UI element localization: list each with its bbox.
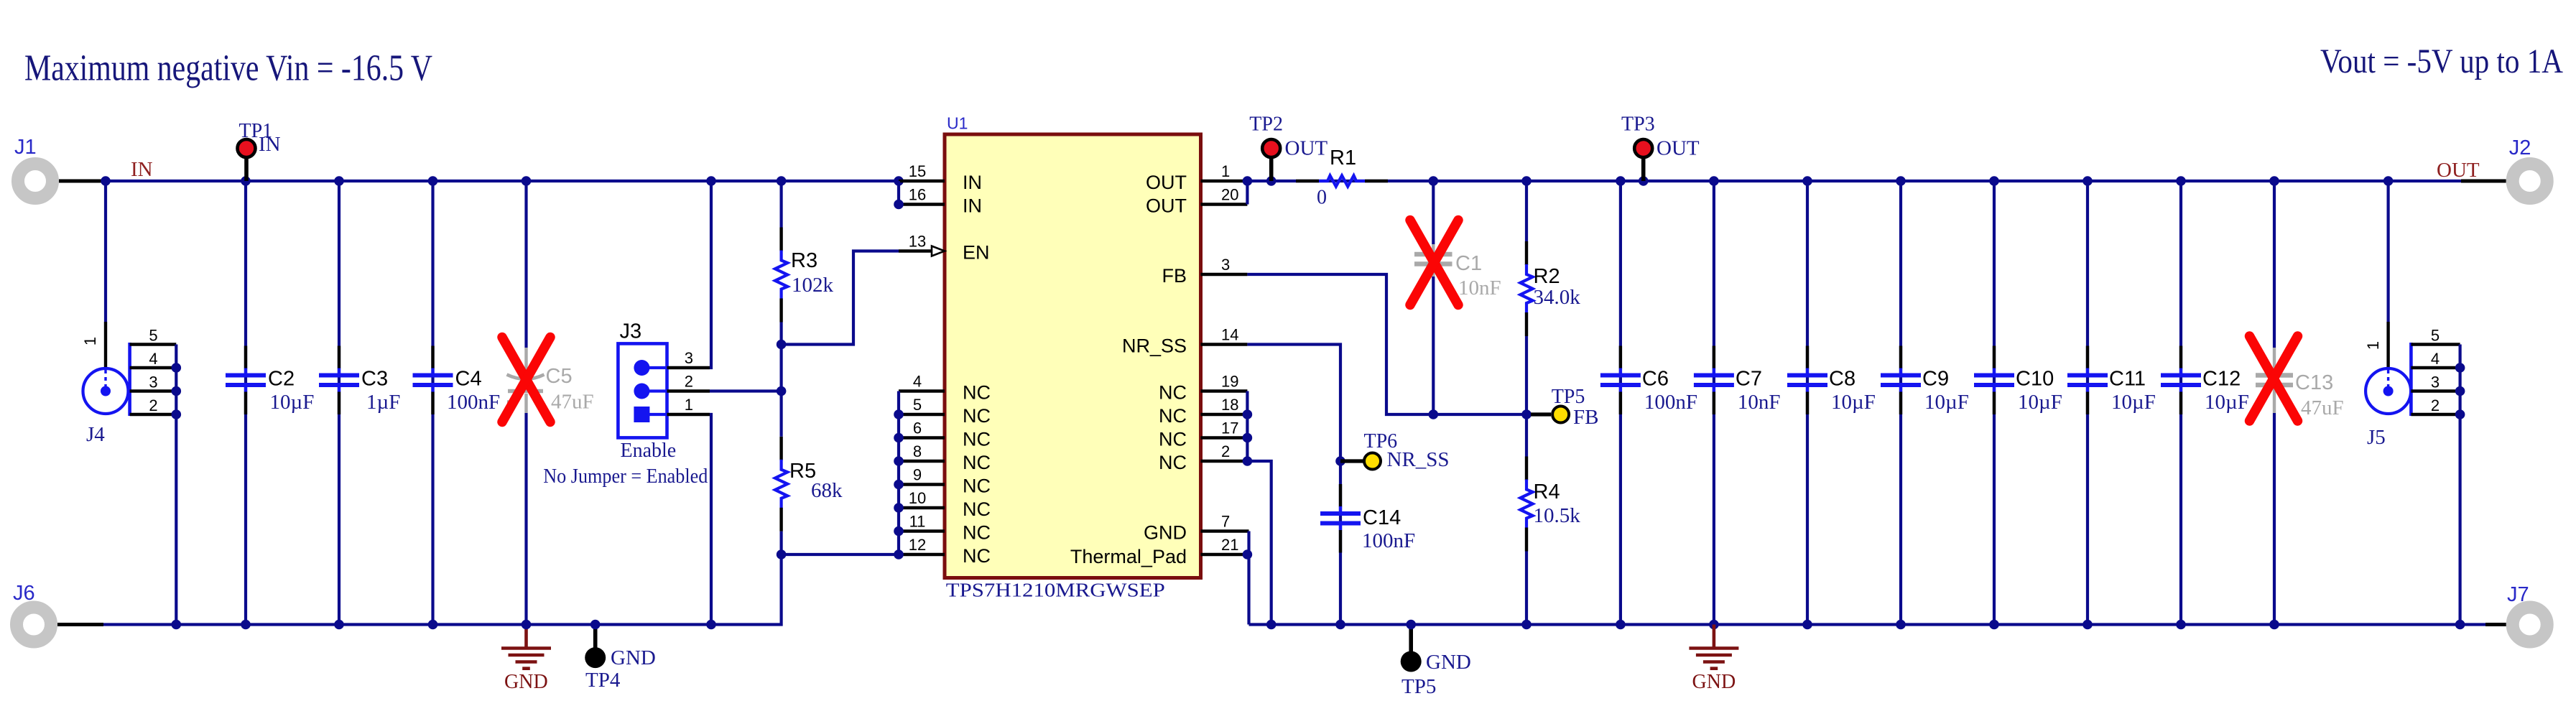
svg-text:C12: C12 [2202, 368, 2241, 391]
pin U1-12 NC [899, 553, 945, 556]
svg-text:102k: 102k [792, 274, 834, 297]
capacitor C13 (not fitted) [2273, 348, 2276, 373]
capacitor C9 [1899, 346, 1902, 369]
pin U1-13 EN [899, 249, 932, 252]
svg-text:10µF: 10µF [2111, 391, 2156, 414]
junction C5/GND [522, 620, 532, 630]
wire C13 column [2273, 181, 2276, 348]
junction cap top [2176, 176, 2186, 186]
pin U1-21 Thermal_Pad [1201, 553, 1248, 556]
svg-text:TP5: TP5 [1401, 675, 1436, 698]
wire pin2 to GND [1247, 461, 1271, 625]
wire GND pin to bus [1247, 531, 1250, 625]
svg-text:U1: U1 [947, 114, 968, 133]
svg-text:4: 4 [149, 350, 157, 368]
wire R3 bottom [779, 322, 782, 345]
pin U1-14 NR_SS [1201, 343, 1248, 345]
svg-text:C2: C2 [268, 368, 295, 391]
svg-text:20: 20 [1221, 186, 1238, 204]
junction cap top [2082, 176, 2093, 186]
wire NR_SS [1247, 345, 1340, 625]
svg-text:TP4: TP4 [585, 669, 621, 692]
svg-text:C6: C6 [1642, 368, 1669, 391]
svg-text:5: 5 [2431, 327, 2440, 345]
svg-text:10µF: 10µF [1924, 391, 1969, 414]
svg-text:J2: J2 [2509, 136, 2531, 159]
svg-text:19: 19 [1221, 373, 1238, 391]
testpoint TP5 GND [1409, 625, 1413, 653]
svg-text:C9: C9 [1922, 368, 1949, 391]
junction C3 [334, 176, 344, 186]
ground GND right [1713, 625, 1716, 649]
capacitor C2 [244, 346, 247, 369]
svg-text:Thermal_Pad: Thermal_Pad [1070, 546, 1187, 567]
resistor R1 [1296, 180, 1319, 182]
junction U1 pin15 [894, 176, 904, 186]
svg-text:IN: IN [963, 195, 982, 217]
svg-text:IN: IN [131, 158, 153, 181]
junction TP1/C2 [241, 176, 251, 186]
junction cap bottom [1802, 620, 1812, 630]
capacitor C14 [1339, 484, 1342, 507]
pin U1-6 NC [899, 436, 945, 439]
svg-text:100nF: 100nF [447, 391, 500, 414]
junction C1 bottom [1429, 409, 1439, 419]
wire C5 column [524, 181, 527, 348]
junction TP6 [1335, 456, 1345, 466]
wire R2 bottom [1525, 336, 1528, 414]
capacitor C6 [1619, 346, 1622, 369]
svg-text:8: 8 [913, 442, 922, 460]
svg-text:IN: IN [963, 172, 982, 193]
op-amp U1 body [945, 134, 1201, 578]
svg-text:12: 12 [909, 536, 926, 554]
junction TP3 [1639, 176, 1649, 186]
junction R3/R5/EN [777, 340, 787, 350]
wire J2 stub [2461, 180, 2506, 183]
svg-text:C11: C11 [2109, 368, 2146, 391]
svg-text:NC: NC [963, 498, 991, 520]
svg-text:R4: R4 [1534, 481, 1560, 503]
svg-text:3: 3 [2431, 373, 2440, 391]
junction J3 pin3 [706, 176, 716, 186]
testpoint TP2 [1269, 159, 1274, 181]
svg-text:J7: J7 [2507, 583, 2529, 606]
wire C12 column [2179, 181, 2182, 625]
wire J6 stub [57, 623, 103, 626]
junction cap bottom [2082, 620, 2093, 630]
junction TP2 [1266, 176, 1277, 186]
svg-text:NC: NC [963, 382, 991, 404]
junction cap bottom [1989, 620, 1999, 630]
svg-text:NC: NC [963, 522, 991, 544]
svg-text:C10: C10 [2016, 368, 2054, 391]
wire C6 column [1619, 181, 1622, 625]
capacitor C7 [1713, 346, 1715, 369]
svg-text:6: 6 [913, 419, 922, 437]
pin U1-4 NC [899, 389, 945, 392]
junction cap top [1802, 176, 1812, 186]
junction C4 [428, 176, 438, 186]
wire J5 shield to GND [2459, 345, 2462, 625]
svg-text:NC: NC [963, 429, 991, 450]
svg-text:10µF: 10µF [1831, 391, 1876, 414]
connector J6 [17, 608, 51, 642]
svg-text:47uF: 47uF [2301, 396, 2344, 419]
svg-text:18: 18 [1221, 396, 1238, 414]
junction J1/J4 [101, 176, 111, 186]
svg-text:2: 2 [1221, 442, 1230, 460]
pin U1-17 NC [1201, 436, 1248, 439]
testpoint TP3 [1641, 159, 1646, 181]
svg-text:4: 4 [913, 373, 922, 391]
svg-text:3: 3 [1221, 256, 1230, 274]
svg-text:J5: J5 [2367, 426, 2386, 449]
pin J3-1 [667, 413, 710, 416]
pin U1-20 OUT [1201, 203, 1248, 205]
junction TP4 [590, 620, 601, 630]
wire C1 column [1432, 181, 1435, 244]
no-fit cross C1 [1410, 220, 1458, 305]
junction pin1 [1243, 176, 1253, 186]
svg-text:1: 1 [685, 396, 693, 414]
junction C5 [522, 176, 532, 186]
capacitor C11 [2086, 346, 2089, 369]
junction C14 bottom [1335, 620, 1345, 630]
wire C3 column [338, 181, 340, 625]
wire IN bus [106, 180, 899, 182]
svg-text:FB: FB [1162, 265, 1187, 287]
junction C1 top [1429, 176, 1439, 186]
capacitor C4 [431, 346, 434, 369]
svg-text:11: 11 [909, 513, 926, 531]
svg-text:1: 1 [2364, 341, 2382, 350]
pin U1-2 NC [1201, 460, 1248, 463]
junction C6 bottom [1616, 620, 1626, 630]
svg-text:R3: R3 [791, 249, 817, 272]
svg-text:7: 7 [1221, 513, 1230, 531]
svg-text:10: 10 [909, 489, 926, 507]
pin J3-2 [667, 389, 710, 392]
connector J5 body [2366, 368, 2411, 414]
junction cap bottom [2269, 620, 2279, 630]
wire R5 top [779, 345, 782, 437]
svg-text:J1: J1 [14, 136, 37, 159]
connector J2 [2513, 164, 2547, 198]
connector J5 shield box [2409, 343, 2413, 416]
capacitor C12 [2179, 346, 2182, 369]
svg-text:15: 15 [909, 162, 926, 180]
svg-text:5: 5 [913, 396, 922, 414]
wire C9 column [1899, 181, 1902, 625]
connector J3 body [618, 343, 667, 437]
junction cap top [2269, 176, 2279, 186]
svg-text:21: 21 [1221, 536, 1238, 554]
svg-text:C8: C8 [1829, 368, 1855, 391]
svg-text:OUT: OUT [1146, 195, 1187, 217]
svg-text:NC: NC [1159, 405, 1187, 427]
ground GND left [524, 625, 528, 649]
wire C8 column [1806, 181, 1809, 625]
testpoint TP6 NR_SS [1340, 459, 1363, 463]
svg-text:OUT: OUT [2437, 159, 2480, 182]
svg-text:J6: J6 [13, 582, 35, 605]
wire C4 column [431, 181, 434, 625]
svg-text:NR_SS: NR_SS [1122, 335, 1187, 357]
pin U1-19 NC [1201, 389, 1248, 392]
wire J3-3 to IN [710, 181, 711, 368]
wire R4 bottom [1525, 552, 1528, 625]
junction cap top [1896, 176, 1906, 186]
wire NC chain left [897, 391, 900, 555]
svg-text:1: 1 [81, 337, 99, 345]
wire EN [782, 251, 899, 345]
wire C7 column [1713, 181, 1715, 625]
capacitor C10 [1993, 346, 1996, 369]
svg-text:5: 5 [149, 327, 157, 345]
svg-text:C5: C5 [546, 365, 573, 388]
svg-text:GND: GND [1692, 671, 1736, 693]
svg-text:GND: GND [1426, 651, 1471, 674]
svg-text:NR_SS: NR_SS [1387, 448, 1450, 471]
resistor R4 [1525, 457, 1528, 481]
svg-text:1: 1 [1221, 162, 1230, 180]
wire C10 column [1993, 181, 1996, 625]
pin U1-18 NC [1201, 413, 1248, 416]
pin U1-3 FB [1201, 273, 1248, 276]
pin U1-7 GND [1201, 529, 1249, 532]
wire GND bus right [1249, 623, 2486, 626]
svg-text:IN: IN [259, 133, 281, 156]
wire C2 column [244, 181, 247, 625]
testpoint TP5 FB [1531, 412, 1551, 416]
connector J7 [2513, 608, 2547, 642]
wire J3-1 to GND [710, 414, 711, 625]
no-fit cross C13 [2250, 336, 2298, 421]
wire GND bus left [103, 554, 782, 625]
wire R3 top [779, 181, 782, 228]
pin U1-9 NC [899, 483, 945, 486]
pin U1-1 OUT [1201, 180, 1248, 182]
wire J3-2 to EN divider [710, 389, 782, 392]
svg-text:10µF: 10µF [2018, 391, 2062, 414]
svg-text:TP2: TP2 [1249, 113, 1283, 136]
wire pin15-16 link [897, 181, 900, 205]
pin J3-3 [667, 366, 710, 369]
svg-text:GND: GND [611, 646, 656, 669]
svg-text:NC: NC [1159, 382, 1187, 404]
junction C2 bottom [241, 620, 251, 630]
svg-text:C7: C7 [1736, 368, 1762, 391]
svg-text:C4: C4 [455, 368, 482, 391]
pin U1-15 IN [899, 180, 945, 182]
wire FB [1247, 274, 1531, 414]
pin U1-5 NC [899, 413, 945, 416]
capacitor C3 [338, 346, 340, 369]
svg-text:10.5k: 10.5k [1534, 504, 1581, 527]
svg-text:1µF: 1µF [366, 391, 400, 414]
junction R5 bottom [777, 549, 787, 560]
svg-text:2: 2 [685, 373, 693, 391]
junction cap top [1989, 176, 1999, 186]
wire C11 column [2086, 181, 2089, 625]
junction C6 top [1616, 176, 1626, 186]
svg-text:34.0k: 34.0k [1534, 286, 1581, 309]
svg-text:No Jumper = Enabled: No Jumper = Enabled [543, 465, 708, 488]
junction R2/R4/FB [1521, 409, 1532, 419]
svg-text:NC: NC [963, 452, 991, 473]
pin U1-11 NC [899, 529, 945, 532]
svg-text:10nF: 10nF [1458, 277, 1501, 300]
junction C4 bottom [428, 620, 438, 630]
svg-text:14: 14 [1221, 326, 1238, 344]
wire J5 pin1 [2387, 181, 2390, 322]
svg-text:EN: EN [963, 242, 990, 264]
wire J4 pin1 [104, 181, 107, 322]
svg-text:OUT: OUT [1285, 137, 1328, 160]
wire pin1-20 link [1246, 181, 1248, 205]
svg-text:GND: GND [504, 671, 548, 693]
svg-text:OUT: OUT [1657, 137, 1700, 160]
resistor R5 [779, 437, 782, 460]
junction GND symbol right [1709, 620, 1719, 630]
svg-text:47uF: 47uF [551, 391, 594, 414]
svg-text:C14: C14 [1363, 506, 1401, 529]
wire J7 stub [2485, 623, 2506, 626]
wire J4 shield to GND [175, 345, 177, 625]
svg-text:R1: R1 [1330, 147, 1356, 170]
svg-text:13: 13 [909, 233, 926, 251]
connector J4 body [83, 368, 129, 414]
resistor R3 [779, 228, 782, 251]
junction cap bottom [1896, 620, 1906, 630]
svg-text:NC: NC [1159, 452, 1187, 473]
wire NC chain right [1246, 391, 1248, 462]
svg-text:17: 17 [1221, 419, 1238, 437]
testpoint TP4 [593, 625, 598, 649]
capacitor C5 (not fitted) [524, 348, 527, 389]
pin U1-16 IN [899, 203, 945, 205]
svg-text:C1: C1 [1455, 252, 1482, 275]
svg-text:10µF: 10µF [2205, 391, 2249, 414]
svg-text:9: 9 [913, 466, 922, 484]
connector J1 [18, 164, 52, 198]
pin U1-10 NC [899, 506, 945, 509]
junction cap top [1709, 176, 1719, 186]
connector J4 shield box [128, 343, 131, 416]
svg-text:NC: NC [963, 545, 991, 567]
svg-text:GND: GND [1144, 522, 1187, 544]
svg-text:100nF: 100nF [1644, 391, 1697, 414]
junction J5 pin1 [2383, 176, 2394, 186]
svg-text:NC: NC [1159, 429, 1187, 450]
wire J1 stub [59, 180, 106, 183]
junction J5 shield [2455, 620, 2465, 630]
svg-text:TP3: TP3 [1621, 113, 1655, 136]
pin U1-8 NC [899, 460, 945, 463]
pin J5-1 lead [2386, 322, 2389, 368]
junction C3 bottom [334, 620, 344, 630]
svg-text:16: 16 [909, 186, 926, 204]
svg-text:2: 2 [149, 396, 157, 414]
svg-text:10µF: 10µF [270, 391, 315, 414]
svg-text:TP5: TP5 [1552, 386, 1585, 408]
no-fit cross C5 [502, 338, 550, 422]
svg-text:3: 3 [685, 349, 693, 367]
svg-text:10nF: 10nF [1738, 391, 1781, 414]
svg-text:FB: FB [1573, 406, 1598, 429]
svg-text:2: 2 [2431, 396, 2440, 414]
capacitor C8 [1806, 346, 1809, 369]
resistor R2 [1525, 241, 1528, 265]
svg-text:J3: J3 [620, 320, 642, 343]
capacitor C1 (not fitted) [1432, 244, 1435, 252]
pin J4-1 lead [104, 322, 107, 368]
svg-text:3: 3 [149, 373, 157, 391]
svg-text:68k: 68k [811, 479, 843, 502]
svg-text:R2: R2 [1534, 265, 1560, 288]
wire R4 top [1525, 414, 1528, 457]
svg-text:C13: C13 [2295, 371, 2333, 394]
testpoint TP1 [244, 159, 249, 181]
svg-text:TPS7H1210MRGWSEP: TPS7H1210MRGWSEP [946, 579, 1165, 601]
wire R2 top [1525, 181, 1528, 241]
svg-text:NC: NC [963, 475, 991, 497]
junction cap bottom [2176, 620, 2186, 630]
svg-text:J4: J4 [86, 423, 105, 446]
wire R5 to pin12 [782, 531, 899, 554]
junction R3 [777, 176, 787, 186]
svg-text:0: 0 [1317, 187, 1327, 209]
svg-text:Vout = -5V up to 1A: Vout = -5V up to 1A [2320, 42, 2563, 80]
svg-text:OUT: OUT [1146, 172, 1187, 193]
svg-text:C3: C3 [361, 368, 388, 391]
svg-text:Enable: Enable [621, 440, 677, 462]
svg-text:100nF: 100nF [1362, 529, 1415, 552]
svg-text:Maximum negative Vin = -16.5 V: Maximum negative Vin = -16.5 V [24, 47, 432, 88]
svg-text:4: 4 [2431, 350, 2440, 368]
svg-text:NC: NC [963, 405, 991, 427]
junction R2 top [1521, 176, 1532, 186]
wire OUT bus [1247, 180, 2461, 182]
